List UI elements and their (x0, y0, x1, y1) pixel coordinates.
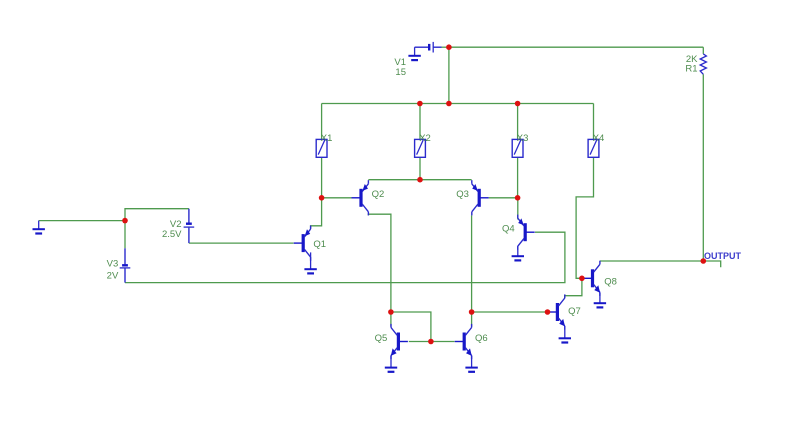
wire: node B to Q3 base (489, 197, 518, 199)
svg-text:Q4: Q4 (502, 224, 515, 235)
junction: mirror base tie (428, 339, 434, 345)
ground (Q8 emitter) (599, 293, 601, 304)
component X1 (316, 139, 327, 157)
transistor Q5 (397, 333, 400, 351)
wire: R1 bottom lead down to OUTPUT node (702, 74, 704, 261)
svg-text:Q8: Q8 (604, 276, 617, 287)
wire: X4 bottom lead down-left to Q8 base node (576, 157, 593, 278)
wire: R1 top lead (702, 47, 704, 54)
junction: Q6 collector (469, 309, 475, 315)
transistor Q1 (302, 234, 305, 252)
wire: X1 top lead (321, 104, 323, 140)
wire: left ground to bias junction (39, 220, 125, 222)
wire: V2 minus to Q1 base (189, 242, 294, 244)
ground (Q7 emitter) (564, 326, 566, 338)
wire: Q3 collector down to Q6 collector (471, 215, 473, 326)
wire: V3 minus rail to Q4 base (125, 232, 565, 282)
svg-text:2.5V: 2.5V (162, 229, 182, 240)
junction: Q8 base node (579, 276, 585, 282)
transistor Q4 (524, 223, 527, 241)
wire: bias junction down to V3 (124, 221, 126, 249)
node A junction (X1 / Q1 / Q2 base) (319, 195, 325, 201)
node B junction (X3 / Q3 base / Q4) (515, 195, 521, 201)
ground (Q6 emitter) (471, 356, 473, 368)
svg-text:V3: V3 (107, 259, 119, 270)
ground (Q5 emitter) (390, 356, 392, 368)
svg-text:OUTPUT: OUTPUT (704, 251, 742, 261)
wire: X4 top lead (593, 104, 595, 140)
svg-text:Q5: Q5 (375, 333, 388, 344)
junction: V1 output node (446, 44, 452, 50)
wire: node A to Q2 base (322, 197, 352, 199)
junction: rail at X3 (515, 101, 521, 107)
svg-text:Q2: Q2 (372, 189, 385, 200)
ground (Q1 collector) (310, 252, 312, 269)
svg-text:Q6: Q6 (475, 333, 488, 344)
component X2 (415, 139, 426, 157)
wire: X2 top lead (419, 104, 421, 140)
wire: Q2/Q3 emitter link (368, 179, 471, 181)
wire: Q2 collector down to Q5 collector (368, 214, 391, 326)
svg-text:X1: X1 (321, 133, 333, 144)
battery V2 2.5V (188, 209, 190, 223)
junction: rail at X2 (417, 101, 423, 107)
junction: Q7 base (545, 309, 551, 315)
junction: bias node (ground / V2 / V3) (122, 218, 128, 224)
wire: V1 to top distribution rail (448, 47, 450, 103)
battery V3 2V (124, 248, 126, 264)
transistor Q6 (463, 333, 466, 351)
svg-text:R1: R1 (685, 63, 697, 74)
wire: Q5 collector to mirror base tie (391, 312, 431, 342)
wire: X3 bottom lead to node B (517, 157, 519, 198)
svg-text:X3: X3 (517, 133, 529, 144)
ground (V1 negative) (415, 46, 430, 48)
svg-text:Q3: Q3 (456, 189, 469, 200)
wire: X1 bottom lead to node A (321, 157, 323, 198)
wire: Q8 collector to OUTPUT node (600, 260, 703, 262)
wire: Q5 base to Q6 base (409, 341, 455, 343)
junction: OUTPUT node (701, 258, 707, 264)
svg-text:X4: X4 (593, 133, 605, 144)
ground (Q4 collector) (517, 246, 519, 256)
transistor Q3 (478, 189, 481, 207)
wire: Q6 collector to Q7 base (472, 311, 548, 313)
wire: node B down to Q4 emitter (517, 198, 519, 220)
transistor Q7 (556, 303, 559, 321)
wire: OUTPUT stub (703, 261, 720, 267)
wire: node A to Q1 emitter (311, 198, 322, 228)
transistor Q2 (359, 189, 362, 207)
battery V1 15 (428, 44, 430, 51)
svg-text:2V: 2V (107, 271, 119, 282)
resistor R1 2K (700, 54, 706, 74)
svg-text:Q7: Q7 (568, 306, 581, 317)
wire: bias junction up and over to V2 plus (125, 209, 189, 221)
wire: X2 bottom lead to Q2/Q3 emitters (419, 157, 421, 179)
junction: Q2/Q3 emitters at X2 (417, 177, 423, 183)
svg-text:15: 15 (395, 67, 406, 78)
component X4 (588, 139, 599, 157)
wire: Q7 collector jog up to Q8 base node (565, 278, 582, 298)
wire: V+ rail from V1 to R1 top corner (449, 46, 703, 48)
wire: X3 top lead (517, 104, 519, 140)
junction: rail at V1 feed (446, 101, 452, 107)
svg-text:Q1: Q1 (313, 239, 326, 250)
ground (left bias) (38, 221, 40, 230)
svg-text:X2: X2 (419, 133, 431, 144)
wire: top distribution rail (322, 103, 594, 105)
component X3 (512, 139, 523, 157)
junction: Q5 collector (388, 309, 394, 315)
transistor Q8 (591, 269, 594, 287)
